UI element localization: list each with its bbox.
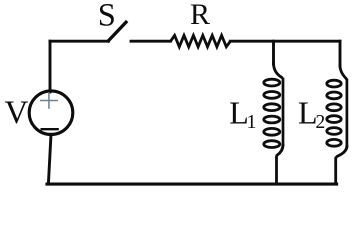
wire top-left (corner to switch pivot) (50, 40, 108, 43)
inductor L2 right spine (346, 80, 349, 146)
svg-text:1: 1 (247, 111, 257, 133)
wire source bottom to bottom-left corner (48, 134, 51, 184)
inductor L1 entry curve (274, 63, 282, 77)
inductor L2 coil loops (327, 80, 341, 146)
wire right vertical top (corner to L2) (339, 41, 342, 66)
wire bottom horizontal (47, 183, 337, 186)
wire resistor to top-right corner (230, 40, 340, 43)
inductor L2 exit curve to bottom wire (336, 146, 347, 184)
wire switch fixed contact to resistor (131, 40, 171, 43)
minus sign inside source (41, 128, 59, 130)
resistor R zigzag (171, 35, 231, 46)
inductor L1 exit curve to bottom wire (277, 145, 284, 184)
voltage source V circle (29, 91, 73, 135)
inductor L2 entry curve (340, 65, 346, 79)
switch S blade (open) (108, 22, 126, 41)
svg-text:R: R (190, 0, 210, 31)
svg-text:V: V (5, 95, 29, 131)
plus sign inside source (40, 92, 58, 109)
wire left vertical (top corner down to source top) (49, 41, 52, 92)
svg-text:S: S (98, 0, 116, 33)
inductor L1 coil loops (264, 79, 280, 147)
svg-text:2: 2 (316, 112, 326, 133)
inductor L1 right spine (282, 79, 285, 145)
node junction of L1 branch with top wire (272, 41, 275, 64)
